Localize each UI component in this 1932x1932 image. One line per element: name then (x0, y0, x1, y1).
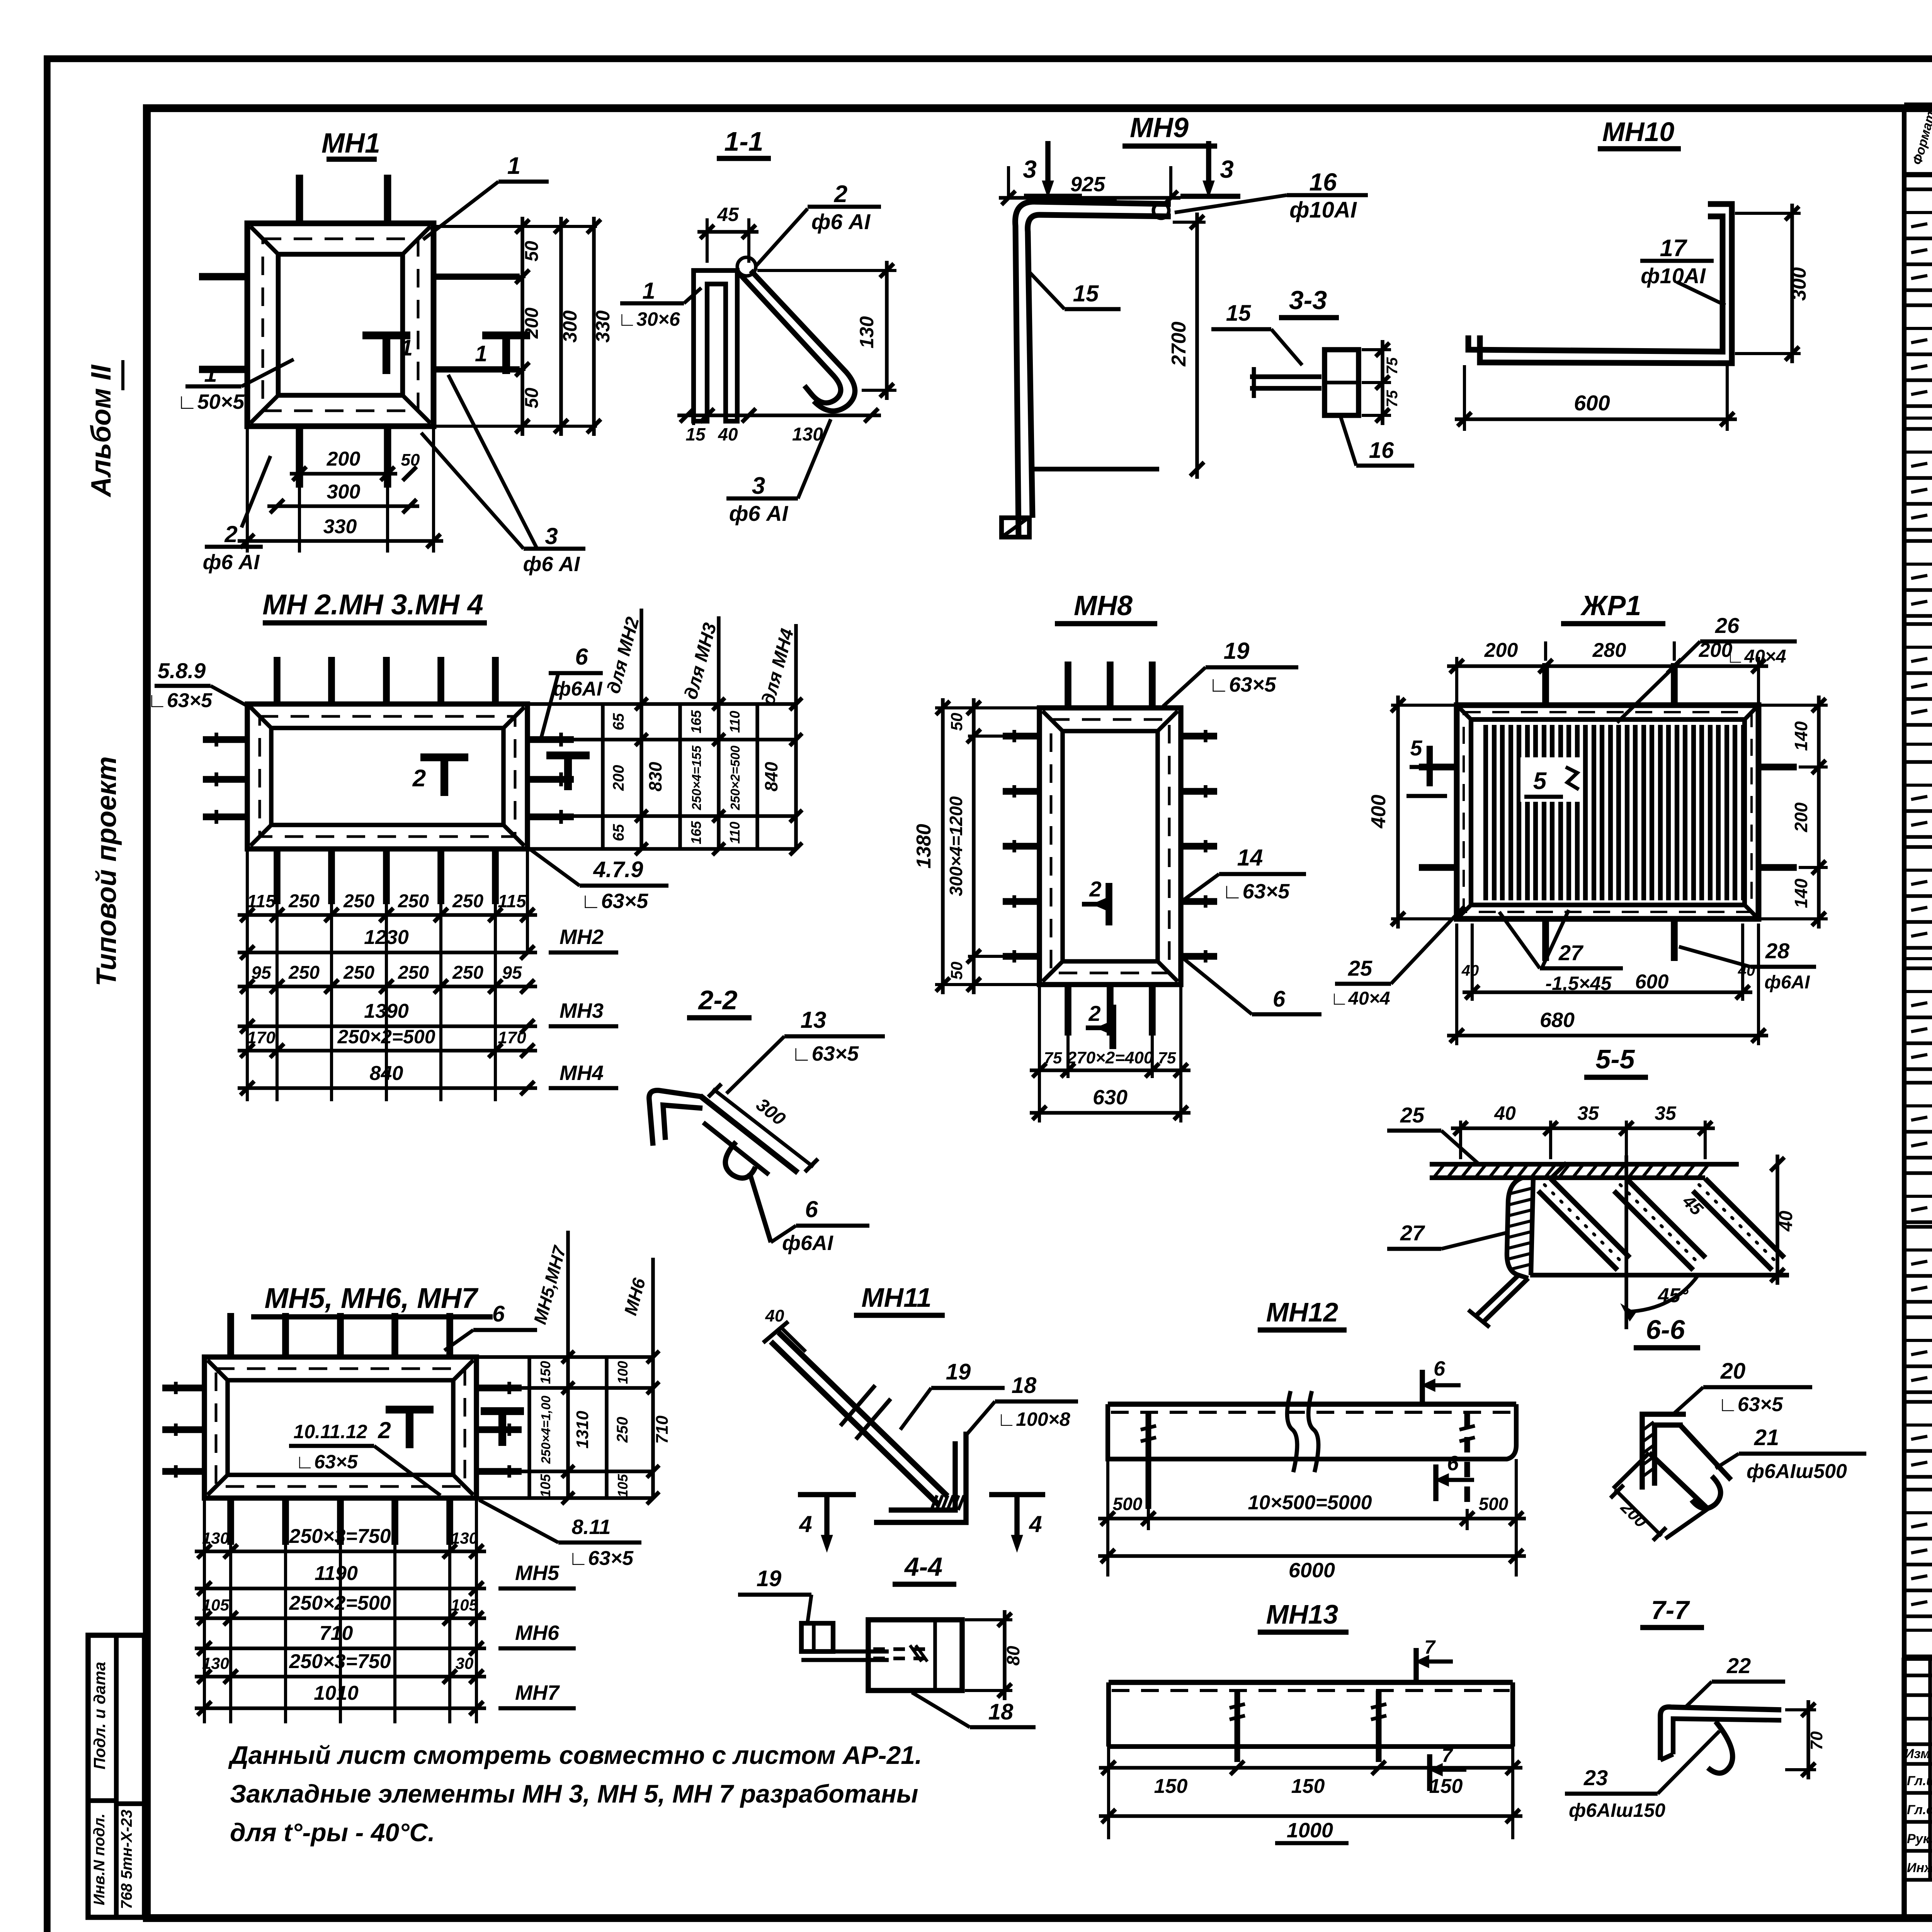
table group ЖР1 (1904, 1488, 1932, 1492)
svg-text:5-5: 5-5 (1595, 1044, 1635, 1074)
МН9 right dimension 2700 (1195, 213, 1199, 479)
МН9 section mark 3 (left) (1045, 141, 1051, 185)
table group МН7 (1904, 845, 1932, 849)
svg-text:40: 40 (1494, 1102, 1516, 1124)
svg-text:Изм: Изм (1905, 1747, 1930, 1761)
svg-text:Инв.N подл.: Инв.N подл. (91, 1813, 108, 1905)
6-6 angle (vertical leg) (1642, 1414, 1686, 1490)
svg-text:МН1: МН1 (321, 128, 380, 159)
МН2-4 grid upstands and rotated captions (639, 609, 643, 704)
table group МН6 (1904, 760, 1932, 764)
ЖР1 bottom dim 680 (1447, 1034, 1768, 1037)
6-6 U hook (1692, 1476, 1721, 1509)
МН5-7 dim row 1010 МН7 (195, 1706, 486, 1710)
svg-text:40: 40 (1461, 962, 1479, 979)
МН2-4 dim row 115 250×4 115 (238, 913, 537, 917)
svg-text:250: 250 (398, 891, 429, 912)
svg-text:110: 110 (727, 711, 743, 733)
svg-text:150: 150 (537, 1361, 553, 1384)
МН5-7 dim row 105 250×2=500 105 (195, 1616, 486, 1620)
svg-text:110: 110 (727, 821, 743, 844)
2-2 angle with anchor (rotated view) (649, 1090, 701, 1146)
МН2-4 plate (plan) (247, 704, 527, 849)
svg-text:ф10АI: ф10АI (1641, 264, 1706, 288)
svg-text:15: 15 (685, 424, 706, 444)
svg-text:15: 15 (1073, 281, 1099, 306)
svg-text:∟30×6: ∟30×6 (617, 308, 680, 330)
МН8 section mark 2 (below) (1109, 1005, 1116, 1049)
7-7 angle with hook (1660, 1707, 1781, 1760)
МН2-4 bottom extension lines (276, 904, 279, 1101)
2-2 plate rotated with 300 dim (700, 1096, 798, 1173)
svg-text:26: 26 (1715, 613, 1740, 638)
svg-text:ф6 АI: ф6 АI (811, 209, 871, 234)
svg-text:Инж: Инж (1907, 1861, 1932, 1875)
МН5-7 studs bottom (227, 1498, 234, 1545)
МН1 plate (square embedded part, plan) (247, 223, 434, 426)
МН8 bottom dims 75 270×2=400 75 (1038, 985, 1041, 1122)
svg-text:5: 5 (1410, 736, 1422, 760)
svg-text:250×3=750: 250×3=750 (289, 1650, 391, 1673)
svg-text:925: 925 (1070, 173, 1105, 196)
svg-text:22: 22 (1726, 1653, 1751, 1678)
svg-text:∟63×5: ∟63×5 (1222, 880, 1290, 903)
svg-text:25: 25 (1348, 956, 1372, 980)
МН8 studs left (1003, 733, 1039, 740)
МН2-4 dim row 1230 МН2 (238, 951, 537, 954)
bottom-left stamp strip boxes (88, 1635, 145, 1917)
svg-text:19: 19 (946, 1359, 971, 1384)
МН12 long angle strip (1108, 1401, 1516, 1407)
svg-text:45: 45 (717, 204, 739, 225)
svg-text:ф6 АI: ф6 АI (729, 501, 789, 526)
svg-text:250: 250 (452, 963, 483, 983)
3-3 stud with plate (1250, 374, 1321, 379)
svg-text:400: 400 (1367, 795, 1390, 829)
svg-text:2: 2 (834, 181, 847, 207)
svg-text:50: 50 (947, 713, 966, 731)
svg-text:75: 75 (1158, 1049, 1176, 1067)
svg-text:95: 95 (251, 963, 272, 983)
svg-text:∟100×8: ∟100×8 (997, 1408, 1070, 1430)
svg-text:170: 170 (247, 1028, 276, 1047)
svg-text:100: 100 (615, 1361, 631, 1384)
table group МН12 (1904, 1315, 1932, 1319)
МН8 bottom dim 630 (1030, 1111, 1190, 1115)
svg-text:50: 50 (522, 388, 542, 408)
МН9 top dimension 925 (1007, 166, 1010, 199)
svg-text:165: 165 (688, 821, 704, 844)
МН9 weld circle pos 16 (1153, 203, 1169, 218)
svg-text:27: 27 (1558, 940, 1584, 965)
МН5-7 studs top (227, 1313, 234, 1357)
svg-text:13: 13 (801, 1007, 827, 1033)
svg-text:830: 830 (645, 762, 665, 791)
МН11 section marks 4-4 (798, 1492, 856, 1497)
1-1 angle upright (∟30×6) (694, 270, 737, 421)
svg-text:65: 65 (610, 824, 627, 841)
ЖР1 left dim 400 (1391, 704, 1455, 707)
svg-text:ЖР1: ЖР1 (1580, 590, 1641, 621)
svg-text:МН9: МН9 (1130, 112, 1189, 143)
svg-text:40: 40 (1776, 1211, 1796, 1232)
svg-text:3: 3 (1220, 155, 1234, 183)
svg-text:МН4: МН4 (560, 1061, 604, 1085)
svg-text:130: 130 (792, 424, 823, 445)
svg-text:10.11.12: 10.11.12 (294, 1421, 367, 1442)
svg-text:ф6 АI: ф6 АI (523, 553, 580, 576)
table group МН10 (1904, 1171, 1932, 1175)
1-1 top dimension 45 (706, 218, 709, 263)
МН8 studs bottom (1065, 985, 1071, 1036)
svg-text:Рук.гр.: Рук.гр. (1907, 1832, 1932, 1846)
МН11 flat bar diagonal (779, 1332, 947, 1496)
svg-text:∟40×4: ∟40×4 (1330, 988, 1390, 1009)
ЖР1 louvre frame (1457, 705, 1759, 919)
svg-text:95: 95 (502, 963, 522, 983)
svg-text:16: 16 (1309, 168, 1337, 196)
svg-text:250: 250 (452, 891, 483, 912)
МН10 bent rod ф10АI (1468, 216, 1723, 352)
svg-text:40: 40 (1738, 962, 1755, 979)
svg-text:27: 27 (1400, 1221, 1425, 1245)
svg-text:6000: 6000 (1289, 1559, 1335, 1582)
5-5 diagonal louvre slats (1551, 1179, 1630, 1258)
svg-text:270×2=400: 270×2=400 (1067, 1048, 1153, 1067)
svg-text:70: 70 (1807, 1731, 1826, 1750)
svg-text:16: 16 (1369, 438, 1394, 463)
2-2 anchor rod down (750, 1173, 771, 1242)
МН10 right dimension 300 (1735, 212, 1801, 215)
МН1 bottom dimension 300 (267, 504, 419, 508)
МН5-7 weld symbol 2Т (386, 1406, 434, 1413)
ЖР1 studs right (1759, 764, 1797, 770)
svg-text:18: 18 (988, 1699, 1014, 1725)
МН13 section mark 7 (top) (1413, 1648, 1419, 1685)
svg-text:45°: 45° (1658, 1284, 1689, 1307)
table group МН5 (1904, 622, 1932, 626)
title block outline (1904, 1655, 1932, 1661)
svg-text:23: 23 (1583, 1765, 1608, 1790)
svg-text:Закладные элементы МН 3, МН: Закладные элементы МН 3, МН 5, МН 7 разр… (230, 1779, 918, 1808)
svg-text:7: 7 (1424, 1636, 1436, 1658)
МН13 dim row 150 150 150 (1107, 1747, 1110, 1839)
svg-text:75: 75 (1044, 1049, 1062, 1067)
МН8 label pos 6 (1183, 958, 1252, 1014)
svg-text:∟63×5: ∟63×5 (568, 1547, 634, 1570)
ЖР1 top dims 200 280 200 (1455, 657, 1458, 702)
svg-text:1380: 1380 (913, 824, 935, 869)
svg-text:130: 130 (451, 1529, 478, 1547)
МН9 section mark 3 (right) (1206, 141, 1211, 185)
svg-text:630: 630 (1093, 1086, 1128, 1109)
МН1 bottom dimension 200 (298, 488, 301, 553)
svg-text:105: 105 (537, 1474, 553, 1497)
svg-text:710: 710 (653, 1415, 672, 1444)
МН5-7 dim row 130 250×3=750 30 (195, 1675, 486, 1679)
svg-text:250×2=500: 250×2=500 (728, 745, 742, 811)
svg-text:130: 130 (202, 1529, 229, 1547)
svg-text:МН 2.МН 3.МН 4: МН 2.МН 3.МН 4 (262, 588, 483, 621)
table group МН9 (1904, 1081, 1932, 1085)
svg-text:МН13: МН13 (1266, 1599, 1338, 1629)
МН8 plate (tall plan) (1039, 708, 1181, 985)
svg-text:200: 200 (610, 765, 627, 791)
svg-text:3-3: 3-3 (1289, 286, 1327, 315)
svg-text:250×4=155: 250×4=155 (689, 745, 704, 811)
МН11 angle ∟100×8 (874, 1432, 966, 1522)
svg-text:28: 28 (1765, 939, 1790, 963)
МН1 anchor studs bottom (296, 426, 303, 488)
svg-text:МН12: МН12 (1266, 1297, 1338, 1327)
4-4 small clip rect (801, 1623, 833, 1651)
svg-text:165: 165 (688, 710, 704, 733)
svg-text:140: 140 (1791, 721, 1811, 751)
table group МН13 (1904, 1400, 1932, 1404)
svg-text:50: 50 (401, 451, 420, 469)
4-4 label pos 18 (912, 1692, 970, 1727)
МН5-7 dim row 1190 МН5 (195, 1587, 486, 1590)
svg-text:15: 15 (1226, 301, 1251, 326)
svg-text:250: 250 (288, 891, 320, 912)
svg-text:840: 840 (761, 762, 781, 791)
svg-text:130: 130 (202, 1654, 229, 1672)
svg-text:250×2=500: 250×2=500 (289, 1592, 391, 1614)
svg-text:4: 4 (799, 1511, 812, 1537)
svg-text:840: 840 (370, 1062, 403, 1085)
svg-text:2700: 2700 (1168, 321, 1190, 367)
МН9 pipe base plate (1002, 518, 1029, 537)
svg-text:21: 21 (1754, 1425, 1779, 1450)
svg-text:МН5: МН5 (515, 1561, 560, 1585)
svg-text:2: 2 (412, 765, 426, 792)
svg-text:1010: 1010 (314, 1682, 359, 1704)
svg-text:∟63×5: ∟63×5 (791, 1042, 859, 1065)
svg-text:170: 170 (498, 1028, 526, 1047)
2-2 U-hook (725, 1142, 755, 1178)
svg-text:Данный лист смотреть совмес: Данный лист смотреть совместно с листом … (228, 1741, 922, 1769)
МН13 dim row 1000 (1099, 1814, 1522, 1818)
МН2-4 studs bottom (274, 849, 281, 904)
svg-text:75: 75 (1384, 357, 1401, 374)
МН8 studs top (1065, 662, 1071, 708)
svg-text:ф6АI: ф6АI (553, 678, 603, 700)
table group МН4 (1904, 539, 1932, 543)
ЖР1 right dims 140 200 140 (1760, 704, 1828, 707)
МН1 bottom dimension 330 (238, 539, 443, 543)
МН5-7 dim row 130 250×3=750 130 (195, 1549, 486, 1553)
svg-text:50: 50 (522, 241, 542, 262)
5-5 vertical web (1507, 1178, 1528, 1278)
МН5-7 studs right (476, 1384, 522, 1391)
МН9 bent pipe (plan) (1015, 202, 1171, 535)
svg-text:35: 35 (1655, 1102, 1677, 1124)
МН11 break marks (840, 1385, 875, 1426)
svg-text:65: 65 (610, 713, 627, 730)
7-7 dim 70 (1785, 1708, 1816, 1711)
svg-text:МН11: МН11 (861, 1282, 932, 1313)
МН1 right dimension 330 (arrowed) (434, 225, 597, 228)
svg-text:40: 40 (718, 424, 738, 444)
svg-text:250: 250 (288, 963, 320, 983)
МН12 dim row 6000 (1098, 1554, 1526, 1558)
5-5 top dims 40 35 35 (1459, 1121, 1462, 1159)
svg-text:∟63×5: ∟63×5 (147, 689, 213, 712)
МН12 section mark 6 (bottom) (1433, 1464, 1439, 1501)
svg-text:1: 1 (475, 341, 487, 366)
МН10 bottom dimension 600 (1463, 365, 1466, 431)
svg-text:4-4: 4-4 (904, 1552, 942, 1582)
table group МН2 (1904, 303, 1932, 307)
МН8 section mark 2 (inside) (1105, 883, 1112, 925)
svg-text:200: 200 (522, 308, 542, 339)
ЖР1 studs top (1542, 663, 1549, 705)
МН11 end tick 40 dim (763, 1321, 788, 1343)
svg-text:МН5, МН6, МН7: МН5, МН6, МН7 (265, 1282, 479, 1314)
МН2-4 studs right (527, 736, 574, 743)
МН13 long strip (1109, 1680, 1513, 1685)
МН5-7 bottom extension lines (229, 1545, 232, 1723)
МН1 right dimension 300 (559, 217, 563, 436)
svg-text:1: 1 (642, 278, 655, 304)
ЖР1 slat mark 5 (inside) (1520, 757, 1582, 802)
title block signature area grid (1904, 1673, 1932, 1677)
svg-text:600: 600 (1574, 391, 1610, 415)
svg-text:Типовой проект: Типовой проект (91, 756, 122, 986)
svg-text:1310: 1310 (573, 1411, 592, 1449)
svg-text:1: 1 (507, 153, 520, 179)
svg-text:МН10: МН10 (1602, 117, 1675, 147)
МН8 studs right (1181, 733, 1217, 740)
svg-text:600: 600 (1635, 971, 1669, 993)
svg-text:250: 250 (614, 1417, 631, 1443)
svg-text:3: 3 (1023, 155, 1037, 183)
svg-text:4.7.9: 4.7.9 (593, 857, 643, 882)
svg-text:6: 6 (1447, 1452, 1459, 1475)
svg-text:6: 6 (492, 1301, 505, 1327)
svg-text:2: 2 (1088, 1001, 1100, 1026)
ЖР1 studs left (1419, 764, 1457, 770)
3-3 dimensions 75 75 (1362, 348, 1391, 351)
svg-text:250×4=1,00: 250×4=1,00 (539, 1395, 553, 1464)
svg-text:1230: 1230 (364, 926, 409, 949)
МН2-4 dim row 1390 МН3 (238, 1024, 537, 1028)
svg-text:17: 17 (1660, 235, 1687, 262)
МН2-4 weld symbol Т right (546, 752, 590, 759)
svg-text:200: 200 (1484, 639, 1518, 662)
svg-text:7: 7 (1442, 1745, 1453, 1766)
svg-text:6: 6 (805, 1196, 818, 1222)
5-5 bottom line (1530, 1273, 1789, 1277)
svg-text:МН8: МН8 (1074, 590, 1133, 621)
svg-text:150: 150 (1429, 1775, 1463, 1798)
МН1 anchor studs top (296, 175, 303, 223)
svg-text:∟63×5: ∟63×5 (1209, 673, 1276, 696)
МН2-4 studs left (203, 736, 247, 743)
svg-text:1390: 1390 (364, 1000, 409, 1022)
svg-text:250: 250 (343, 963, 374, 983)
svg-text:105: 105 (451, 1596, 478, 1614)
svg-text:280: 280 (1592, 639, 1626, 662)
svg-text:250×3=750: 250×3=750 (289, 1525, 391, 1548)
svg-text:6: 6 (1434, 1357, 1446, 1380)
МН5-7 plate (204, 1357, 476, 1498)
parts table header row (1904, 102, 1932, 108)
МН13 section mark 7 (bottom) (1427, 1754, 1432, 1791)
4-4 connecting bar (801, 1650, 889, 1654)
МН12 break marks (1287, 1391, 1297, 1472)
svg-text:1000: 1000 (1287, 1819, 1333, 1842)
svg-text:130: 130 (856, 316, 878, 349)
svg-text:300: 300 (559, 310, 581, 343)
svg-text:2: 2 (1089, 877, 1101, 901)
svg-text:14: 14 (1237, 845, 1263, 871)
svg-text:7-7: 7-7 (1651, 1595, 1690, 1625)
МН12 section mark 6 (top) (1420, 1370, 1425, 1406)
svg-text:2-2: 2-2 (697, 985, 737, 1015)
svg-text:4: 4 (1029, 1511, 1042, 1537)
МН1 anchor studs right (dashed extensions) (434, 274, 520, 280)
МН13 studs (1235, 1690, 1240, 1762)
4-4 right dim 80 (965, 1618, 1012, 1621)
svg-text:115: 115 (247, 891, 276, 911)
МН5-7 grid upstands + rotated captions (566, 1231, 570, 1357)
5-5 horizontal hatched flange (1430, 1162, 1739, 1167)
МН2-4 dim row 95 250x4 95 (238, 985, 537, 988)
svg-text:300×4=1200: 300×4=1200 (946, 796, 966, 896)
svg-text:35: 35 (1577, 1102, 1599, 1124)
svg-text:150: 150 (1154, 1775, 1188, 1798)
table bottom region line (1904, 1629, 1932, 1632)
svg-text:25: 25 (1400, 1103, 1425, 1127)
svg-text:19: 19 (757, 1566, 782, 1591)
svg-text:2: 2 (224, 521, 237, 547)
parts table outer verticals (1902, 105, 1906, 1658)
МН1 right dimension 50/200/50 (434, 275, 526, 278)
svg-text:∟50×5: ∟50×5 (177, 390, 245, 413)
svg-text:200: 200 (1791, 802, 1811, 832)
svg-text:1190: 1190 (315, 1562, 358, 1585)
svg-text:330: 330 (592, 310, 614, 343)
МН12 studs with ticks (1146, 1412, 1151, 1509)
svg-text:МН2: МН2 (560, 925, 604, 949)
svg-text:150: 150 (1291, 1775, 1325, 1798)
svg-text:1-1: 1-1 (724, 126, 763, 156)
svg-text:680: 680 (1540, 1009, 1575, 1032)
svg-text:2: 2 (378, 1417, 391, 1443)
svg-text:МН6: МН6 (515, 1621, 560, 1645)
МН2-4 weld symbol 2Т (420, 753, 468, 761)
svg-text:500: 500 (1113, 1494, 1143, 1514)
svg-text:250: 250 (398, 963, 429, 983)
МН5-7 studs left (162, 1384, 204, 1391)
svg-text:ф6 АI: ф6 АI (203, 551, 260, 574)
svg-text:1: 1 (400, 335, 413, 361)
table group МН3 (1904, 427, 1932, 431)
svg-text:3: 3 (545, 523, 558, 549)
svg-text:Гл.инж: Гл.инж (1907, 1774, 1932, 1788)
svg-text:МН7: МН7 (515, 1681, 560, 1704)
svg-text:для t°-ры - 40°С.: для t°-ры - 40°С. (230, 1818, 435, 1847)
svg-text:1: 1 (204, 361, 217, 387)
svg-text:500: 500 (1479, 1494, 1509, 1514)
svg-text:8.11: 8.11 (571, 1515, 611, 1539)
svg-text:18: 18 (1012, 1373, 1037, 1398)
МН2-4 dim row 840 МН4 (238, 1086, 537, 1090)
4-4 big plate (868, 1620, 962, 1690)
6-6 rotated plate with 200 dim (1649, 1426, 1731, 1509)
svg-text:МН3: МН3 (560, 999, 604, 1022)
